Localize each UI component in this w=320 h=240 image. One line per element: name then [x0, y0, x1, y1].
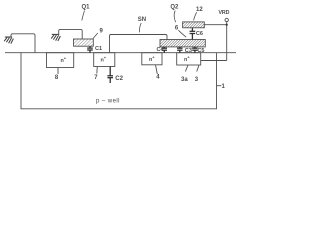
wire surface line: [5, 52, 236, 54]
wire leader to 7: [96, 67, 99, 74]
svg-text:Q1: Q1: [82, 5, 91, 11]
capacitor C1: [87, 46, 93, 53]
wire leader to 1: [217, 85, 222, 87]
wire leader 9: [93, 33, 98, 39]
svg-text:3a: 3a: [181, 77, 188, 83]
junction dot at VRD branch: [226, 24, 228, 26]
wire leader 12: [194, 12, 197, 20]
wire ground to surface (well tap): [11, 34, 35, 53]
terminal VRD: [225, 18, 228, 21]
node n+ region 4: [142, 53, 162, 65]
svg-text:C3: C3: [185, 48, 192, 54]
ground (left, symbol): [4, 37, 13, 44]
transistor Q1 gate electrode 9 (hatched): [74, 39, 94, 46]
ground (at gate of Q1): [51, 34, 60, 41]
wire leader to 3: [197, 65, 199, 72]
node n+ region 8 (source of Q1): [47, 53, 74, 68]
svg-text:C5: C5: [197, 48, 204, 54]
wire leader Q2: [174, 11, 175, 23]
wire leader SN: [139, 23, 141, 32]
wire VRD vertical: [226, 22, 228, 61]
transistor Q2 gate electrode 6 (hatched): [160, 40, 205, 47]
svg-text:C1: C1: [95, 46, 102, 52]
wire storage node SN plate outline: [110, 35, 168, 53]
svg-text:C4: C4: [157, 47, 165, 53]
svg-text:VRD: VRD: [219, 10, 230, 16]
wire ground to gate 9: [59, 29, 82, 39]
node n+ region 7: [94, 53, 115, 67]
capacitor C4: [162, 47, 167, 53]
wire drain 3 to VRD line: [201, 60, 227, 62]
wire leader to 3a: [185, 65, 188, 72]
wire leader 6: [178, 30, 186, 37]
wire electrode 12 to VRD line: [204, 24, 226, 26]
svg-text:p – well: p – well: [96, 98, 120, 104]
svg-text:12: 12: [196, 7, 203, 13]
wire leader to 8: [57, 68, 59, 75]
capacitor C3: [177, 47, 182, 53]
svg-text:SN: SN: [138, 17, 146, 23]
node n+ region 3/3a (drain of Q2): [177, 53, 201, 65]
svg-text:Q2: Q2: [170, 5, 179, 11]
electrode 12 (hatched): [183, 22, 205, 28]
svg-text:C6: C6: [196, 31, 203, 37]
capacitor C6: [190, 28, 196, 40]
svg-text:C2: C2: [115, 76, 123, 82]
wire leader Q1: [82, 11, 85, 21]
text labels: [55, 5, 230, 105]
node p-well outline: [21, 53, 217, 109]
capacitor C5: [192, 47, 197, 53]
capacitor C2: [107, 67, 113, 84]
wire leader to 4: [156, 65, 158, 74]
leader curves: [82, 11, 197, 39]
